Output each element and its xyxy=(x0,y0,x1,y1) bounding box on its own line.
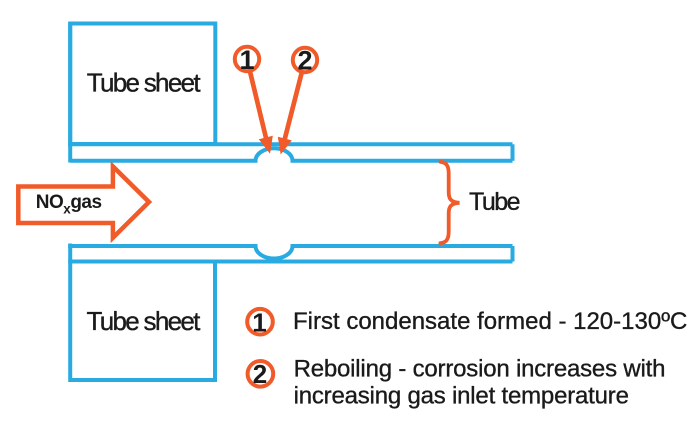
NOx gas block arrow xyxy=(18,166,149,237)
legend circle 2 xyxy=(248,361,274,387)
tube top wall: right end cap xyxy=(511,144,515,161)
svg-text:Tube sheet: Tube sheet xyxy=(87,67,202,97)
svg-text:Tube sheet: Tube sheet xyxy=(87,306,202,336)
arrowhead 1 xyxy=(259,136,273,154)
tube top wall: bottom line with corrosion bump xyxy=(70,148,512,161)
svg-text:2: 2 xyxy=(297,46,312,76)
svg-text:Tube: Tube xyxy=(469,188,520,216)
svg-text:2: 2 xyxy=(253,359,267,389)
tube sheet box (top) xyxy=(70,24,215,145)
legend circle 1 xyxy=(247,309,273,335)
callout circle 1 xyxy=(235,47,259,71)
callout circle 2 xyxy=(293,48,317,72)
tube bottom wall: top line with corrosion pit xyxy=(68,246,512,259)
svg-text:1: 1 xyxy=(239,45,254,75)
svg-text:First condensate formed - 120-: First condensate formed - 120-130ºC xyxy=(293,308,687,335)
tube bottom wall: right end cap xyxy=(511,246,515,262)
svg-text:Reboiling - corrosion increase: Reboiling - corrosion increases with xyxy=(294,355,666,382)
svg-text:increasing gas inlet temperatu: increasing gas inlet temperature xyxy=(294,383,629,410)
arrowhead 2 xyxy=(278,137,292,155)
svg-text:1: 1 xyxy=(252,308,266,338)
curly brace (tube span) xyxy=(440,162,459,243)
tube top wall: left vertical edge xyxy=(68,22,72,163)
tube bottom wall: bottom line xyxy=(68,260,512,264)
tube top wall: top line xyxy=(68,142,512,146)
arrow line from circle 2 xyxy=(285,72,303,140)
tube sheet box (bottom) xyxy=(70,244,215,381)
arrow line from circle 1 xyxy=(250,71,267,140)
